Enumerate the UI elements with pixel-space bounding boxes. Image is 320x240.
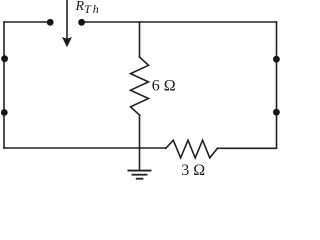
wire left side [3, 22, 5, 148]
svg-text:3 Ω: 3 Ω [181, 162, 205, 179]
terminal dot right upper [273, 56, 280, 63]
wire top-right segment [82, 21, 277, 23]
terminal dot right lower [273, 109, 280, 116]
terminal dot top-left [47, 19, 54, 26]
wire bottom-left segment [4, 147, 166, 149]
ground stub wire [139, 148, 141, 170]
resistor R 3ohm zigzag [166, 140, 218, 158]
ground symbol [128, 171, 152, 179]
terminal dot left upper [1, 55, 8, 62]
resistor R 6ohm zigzag [131, 57, 149, 115]
arrow RTh pointing down between terminals [62, 0, 72, 47]
svg-text:RTh: RTh [75, 0, 101, 16]
wire middle branch bottom stub [139, 115, 141, 148]
wire middle branch top stub [139, 22, 141, 57]
wire right side [276, 22, 278, 148]
terminal dot top-right [78, 19, 85, 26]
wire top-left segment [4, 21, 50, 23]
wire bottom-right segment [218, 147, 277, 149]
svg-text:6 Ω: 6 Ω [152, 77, 176, 94]
terminal dot left lower [1, 109, 8, 116]
